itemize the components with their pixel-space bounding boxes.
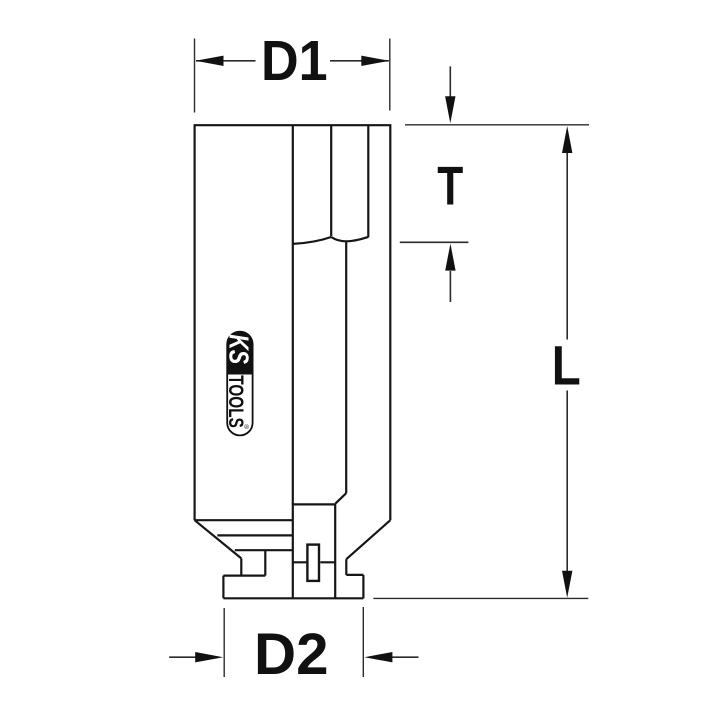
svg-text:KS: KS: [223, 334, 254, 364]
right taper end edge: [345, 559, 347, 575]
dimension D1 arrow left: [196, 60, 256, 62]
dimension T up arrow: [449, 271, 451, 302]
socket body outer outline: [195, 125, 391, 520]
dimension T down arrow: [449, 66, 451, 98]
dimension L line upper: [566, 140, 568, 340]
dimension T bottom extension line: [400, 241, 469, 243]
hex bore edge line right: [367, 125, 369, 237]
dimension T top extension line: [405, 124, 589, 126]
dimension L line lower: [566, 391, 568, 585]
retaining groove line: [293, 561, 335, 563]
dimension D1 extension line left: [194, 39, 196, 113]
dimension L bottom extension line: [373, 597, 588, 599]
svg-text:D1: D1: [261, 29, 328, 93]
left collar step edge: [264, 550, 266, 575]
drive collar right edge: [334, 504, 336, 599]
svg-text:L: L: [552, 334, 581, 396]
left taper end edge: [240, 558, 242, 575]
left flange top edge: [223, 574, 265, 576]
flange bottom edge: [223, 597, 363, 599]
dimension D2 extension line left: [223, 608, 225, 677]
svg-text:TOOLS: TOOLS: [224, 375, 247, 428]
dimension D2 extension line right: [362, 607, 364, 677]
socket center edge line (full height): [292, 125, 294, 598]
svg-text:®: ®: [242, 424, 250, 429]
svg-text:T: T: [437, 154, 463, 216]
right flange side edge: [362, 575, 364, 598]
taper ring line 1: [217, 534, 292, 536]
inner bore line: [345, 241, 347, 493]
hex body bottom edge: [195, 519, 293, 521]
dimension D1 extension line right: [389, 39, 391, 111]
dimension D2 arrow left: [169, 656, 197, 658]
drive collar top edge: [293, 503, 336, 505]
left taper diagonal: [195, 520, 242, 558]
inner bore chamfer: [335, 493, 346, 503]
right taper diagonal: [346, 520, 390, 559]
taper ring line 2: [235, 549, 293, 551]
hex bore bottom curve right: [331, 237, 368, 241]
right flange top edge: [346, 574, 363, 576]
pin hole rectangle: [307, 545, 319, 581]
left flange side edge: [222, 576, 224, 599]
dimension D2 arrow right: [391, 656, 419, 658]
svg-text:D2: D2: [254, 622, 329, 687]
hex bore edge line left: [330, 125, 332, 236]
dimension D1 arrow right: [330, 60, 389, 62]
KS Tools logo capsule: [223, 332, 254, 436]
hex bore bottom curve left: [293, 237, 331, 244]
